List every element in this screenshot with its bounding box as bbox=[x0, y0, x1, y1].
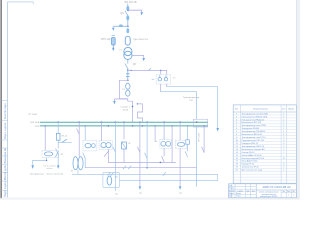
wire from TSN down-left bbox=[33, 158, 47, 166]
right mini grid column 3 bbox=[290, 190, 292, 198]
svg-text:QS: QS bbox=[120, 12, 124, 15]
F4 lower wire bbox=[84, 158, 86, 168]
surge arrester OPN-110 body bbox=[111, 37, 115, 45]
left margin stamp divider 9 bbox=[1, 189, 8, 191]
table row 6 line bbox=[233, 129, 296, 131]
PT winding oval b bbox=[78, 157, 83, 170]
tap wire right with blade bbox=[58, 141, 71, 143]
frame top border (partial, faded scan) bbox=[8, 2, 34, 4]
svg-text:1: 1 bbox=[283, 131, 284, 133]
equipment table outer frame bbox=[233, 105, 296, 184]
svg-text:Трансформатор тока ТФЗМ: Трансформатор тока ТФЗМ bbox=[242, 124, 267, 127]
svg-text:Пров.: Пров. bbox=[229, 196, 233, 198]
PT TV1 symbol bbox=[158, 78, 161, 81]
F9 arrow bbox=[139, 186, 142, 189]
svg-text:КРУ-10кВ: КРУ-10кВ bbox=[199, 132, 201, 141]
svg-text:13: 13 bbox=[236, 149, 238, 151]
cable loop wire lower bbox=[119, 180, 217, 182]
svg-text:1: 1 bbox=[283, 170, 284, 172]
title block left row line 2 bbox=[229, 188, 257, 190]
feeder F4 wire bbox=[84, 126, 86, 140]
feeder F2 lower wire bbox=[57, 154, 59, 165]
feeder F3 blade bbox=[77, 129, 80, 134]
table row 16 line bbox=[233, 158, 296, 160]
wire below PT box b bbox=[166, 84, 168, 87]
svg-text:Петров: Петров bbox=[236, 196, 241, 198]
table row 10 line bbox=[233, 141, 296, 143]
title block main divider bbox=[255, 184, 257, 198]
own-needs tap wire with arrow bbox=[114, 99, 127, 101]
svg-text:19: 19 bbox=[236, 167, 238, 169]
svg-text:Инв.№ подл.: Инв.№ подл. bbox=[3, 102, 7, 119]
disconnector QS1 blade bbox=[125, 11, 128, 16]
right mini grid column 1 bbox=[280, 190, 282, 198]
svg-text:ТДН-16000/110: ТДН-16000/110 bbox=[133, 39, 149, 41]
right mini grid header line bbox=[281, 191, 296, 193]
svg-text:Выключатель нагрузки ВН: Выключатель нагрузки ВН bbox=[242, 149, 266, 151]
feeder F1 arrow bbox=[31, 165, 34, 169]
TSN cell dashed box bbox=[42, 150, 59, 157]
svg-text:прс: прс bbox=[139, 193, 142, 195]
arrester FV1 arrow bbox=[140, 12, 143, 15]
wire: tertiary branch bbox=[132, 55, 144, 58]
table row 12 line bbox=[233, 147, 296, 149]
svg-text:Наименование: Наименование bbox=[253, 108, 269, 110]
F4 breaker oval bbox=[85, 143, 91, 147]
svg-text:QF: QF bbox=[133, 63, 137, 66]
svg-text:Шина АД31Т 50х5: Шина АД31Т 50х5 bbox=[242, 160, 258, 163]
svg-text:Разъединитель РНДЗ-110: Разъединитель РНДЗ-110 bbox=[242, 119, 265, 121]
svg-text:ПК-10: ПК-10 bbox=[62, 136, 68, 138]
reactor square with cross bbox=[122, 142, 127, 149]
node on link bbox=[131, 70, 132, 71]
node: branch point bbox=[127, 10, 129, 12]
svg-text:12: 12 bbox=[283, 158, 285, 160]
svg-text:Трансформатор ЗНОЛ-10: Трансформатор ЗНОЛ-10 bbox=[242, 145, 265, 148]
busbar W1 (1 section) bbox=[40, 121, 207, 123]
table column line 1 bbox=[239, 105, 241, 184]
svg-text:Трансформатор: Трансформатор bbox=[183, 96, 200, 99]
svg-text:6: 6 bbox=[283, 134, 284, 136]
svg-text:3: 3 bbox=[236, 119, 237, 121]
svg-text:1: 1 bbox=[283, 119, 284, 121]
svg-text:Выключатель ВВ-10 кВ: Выключатель ВВ-10 кВ bbox=[242, 134, 263, 136]
svg-text:Щит собственных нужд: Щит собственных нужд bbox=[242, 170, 263, 172]
frame bottom faint line bbox=[0, 197, 300, 199]
feeder F8 wire bbox=[123, 122, 125, 139]
svg-text:14: 14 bbox=[236, 152, 238, 154]
svg-text:Трансформатор силовой ТДН: Трансформатор силовой ТДН bbox=[242, 112, 269, 115]
svg-text:Разраб.: Разраб. bbox=[229, 193, 235, 195]
svg-text:СН: СН bbox=[189, 100, 193, 102]
wire: outer link to standby feeder bbox=[167, 87, 218, 128]
blade on loop wire bbox=[163, 172, 166, 175]
svg-text:3: 3 bbox=[283, 140, 284, 142]
feeder F11 wire bbox=[154, 126, 156, 140]
F10 blade bbox=[145, 153, 147, 158]
svg-text:др: др bbox=[128, 142, 130, 144]
table row 21 line bbox=[233, 173, 296, 175]
cell vertical oval bbox=[107, 176, 112, 185]
CT TA1 on main line bbox=[126, 28, 129, 33]
tick left of PT box bbox=[152, 78, 154, 80]
title block left column line b bbox=[234, 184, 236, 198]
table row 8 line bbox=[233, 135, 296, 137]
svg-text:1: 1 bbox=[293, 195, 294, 197]
TSN winding oval bbox=[44, 152, 52, 156]
svg-text:Разрядник РВО-10: Разрядник РВО-10 bbox=[242, 143, 258, 145]
table row 20 line bbox=[233, 170, 296, 172]
table row 22 line bbox=[233, 176, 296, 178]
table row 13 line bbox=[233, 149, 296, 151]
feeder F7 wire (straight bay) bbox=[114, 122, 116, 190]
svg-text:Примеч.: Примеч. bbox=[288, 109, 295, 111]
svg-text:1СШ 10кВ: 1СШ 10кВ bbox=[30, 122, 40, 124]
bus end enclosure bbox=[193, 119, 207, 127]
wire: inner link to bus section bbox=[161, 92, 197, 120]
table row 7 line bbox=[233, 132, 296, 134]
left margin stamp divider 4 bbox=[1, 147, 8, 149]
F14 lower wire bbox=[179, 149, 181, 187]
right mini grid column 2 bbox=[285, 190, 287, 198]
svg-text:12: 12 bbox=[236, 146, 238, 148]
table row 14 line bbox=[233, 152, 296, 154]
breaker symbol on main line bbox=[126, 15, 129, 20]
wire to 10kV junction bbox=[127, 69, 129, 71]
svg-text:прс: прс bbox=[179, 193, 182, 195]
svg-text:РУ 10кВ: РУ 10кВ bbox=[28, 114, 37, 116]
line trap / coupling symbol bbox=[126, 6, 129, 11]
svg-text:15: 15 bbox=[236, 155, 238, 157]
svg-text:Подп. и дата: Подп. и дата bbox=[3, 181, 7, 197]
F13 cell dashed box with oval bbox=[176, 140, 187, 148]
PT winding oval a bbox=[73, 157, 78, 170]
svg-text:4: 4 bbox=[236, 122, 237, 124]
TSN switch blade bbox=[55, 152, 58, 158]
PT assembly dashed box bbox=[156, 74, 170, 84]
F17 blade bbox=[202, 147, 204, 152]
svg-text:Ограничитель ОПН-110 УХЛ1: Ограничитель ОПН-110 УХЛ1 bbox=[242, 116, 268, 118]
svg-text:Линия к абонентам: Линия к абонентам bbox=[46, 173, 64, 175]
node on stair link bbox=[137, 103, 138, 104]
title block left column line d bbox=[250, 184, 252, 198]
svg-text:Заградитель ВЗ-600: Заградитель ВЗ-600 bbox=[242, 128, 260, 130]
wire below transformer bbox=[127, 60, 129, 63]
wire: main line 10kV side down bbox=[127, 70, 129, 80]
svg-text:Трансформатор тока ТЛ-10: Трансформатор тока ТЛ-10 bbox=[242, 136, 266, 139]
F4 blade below bbox=[83, 153, 85, 158]
node on jog bbox=[132, 106, 134, 108]
busbar W2 (2 section) bbox=[40, 125, 207, 127]
table row 1 line bbox=[233, 114, 296, 116]
blade on collector 2 bbox=[128, 166, 131, 169]
F4 cell dashed box bbox=[83, 140, 97, 151]
cable loop right vertical bbox=[217, 174, 219, 180]
F4 small circle bbox=[92, 144, 96, 148]
wire: PT column a bbox=[160, 70, 162, 74]
table row 19 line bbox=[233, 167, 296, 169]
svg-text:3: 3 bbox=[283, 143, 284, 145]
feeder F16 wire bbox=[196, 127, 198, 186]
wire: main line to junction bbox=[127, 21, 129, 27]
svg-text:Взам.инв.№: Взам.инв.№ bbox=[3, 148, 7, 163]
left margin stamp divider 5 bbox=[1, 155, 8, 157]
left margin stamp divider 8 bbox=[1, 180, 8, 182]
transformer T1 upper winding bbox=[124, 47, 132, 55]
right page edge band bbox=[297, 0, 300, 200]
F5 blade below bbox=[104, 151, 109, 157]
svg-text:Лист: Лист bbox=[232, 190, 235, 192]
node on collector b bbox=[160, 162, 162, 164]
svg-text:ОПН-110: ОПН-110 bbox=[101, 39, 111, 41]
svg-text:6: 6 bbox=[236, 128, 237, 130]
cell slash marks bbox=[108, 173, 110, 176]
table row 17 line bbox=[233, 161, 296, 163]
feeder F5 wire bbox=[100, 122, 102, 140]
wire below PT ovals bbox=[77, 170, 79, 175]
collector wire lavender lower bbox=[85, 167, 196, 169]
svg-text:Лист: Лист bbox=[287, 191, 291, 193]
frame left border bbox=[7, 2, 9, 198]
node at bypass tap bbox=[127, 80, 129, 82]
svg-text:10: 10 bbox=[236, 140, 238, 142]
tertiary arrow bbox=[142, 58, 145, 61]
CT on OPN branch bbox=[119, 24, 123, 27]
F5 truck circle b bbox=[106, 143, 111, 148]
svg-text:Секция 1: Секция 1 bbox=[121, 107, 131, 109]
F14 arrow bbox=[179, 186, 182, 189]
svg-text:Поз.: Поз. bbox=[235, 109, 239, 111]
svg-text:Трансформатор ТМ-400/10: Трансформатор ТМ-400/10 bbox=[242, 130, 266, 133]
feeder F6 wire bbox=[107, 150, 109, 163]
F12 blade bbox=[162, 156, 164, 162]
feeder F3 wire (PT bay) bbox=[78, 122, 80, 156]
svg-text:1: 1 bbox=[288, 195, 289, 197]
F11 cell dashed box with two circles bbox=[160, 140, 172, 149]
svg-text:Изолятор опорный ИО-10: Изолятор опорный ИО-10 bbox=[242, 157, 265, 160]
svg-text:Трансформатор: Трансформатор bbox=[30, 172, 44, 175]
svg-text:10 кВ: 10 кВ bbox=[122, 110, 128, 112]
feeder F2 wire bbox=[57, 122, 59, 133]
table row 9 line bbox=[233, 138, 296, 140]
feeder F14 wire bbox=[179, 122, 181, 140]
F13 breaker oval bbox=[178, 142, 185, 146]
svg-text:Кол: Кол bbox=[282, 109, 285, 111]
svg-text:1: 1 bbox=[283, 122, 284, 124]
feeder F12 wire bbox=[163, 122, 165, 139]
left margin stamp divider 6 bbox=[1, 163, 8, 165]
svg-text:Подп. и дата: Подп. и дата bbox=[3, 122, 7, 139]
F11 truck circle b bbox=[166, 141, 171, 146]
svg-text:Реактор РБ-10: Реактор РБ-10 bbox=[242, 152, 255, 154]
svg-text:1: 1 bbox=[283, 128, 284, 130]
svg-text:Предохранитель ПКТ-101: Предохранитель ПКТ-101 bbox=[242, 140, 265, 142]
wire below fuse bbox=[57, 140, 59, 148]
F15 blade bbox=[185, 152, 187, 157]
svg-text:18: 18 bbox=[236, 164, 238, 166]
table row 11 line bbox=[233, 144, 296, 146]
wire: branch left to OPN bbox=[113, 25, 128, 27]
bus junction nodes bottom bbox=[44, 125, 205, 127]
table row 23 line bbox=[233, 179, 296, 181]
svg-text:9: 9 bbox=[283, 137, 284, 139]
frame right border bbox=[295, 0, 297, 198]
svg-text:3: 3 bbox=[283, 125, 284, 127]
svg-text:5: 5 bbox=[236, 125, 237, 127]
CT oval pair lower bbox=[126, 90, 130, 96]
svg-text:8: 8 bbox=[236, 134, 237, 136]
table row 3 line bbox=[233, 120, 296, 122]
left margin stamp divider 2 bbox=[1, 119, 8, 121]
left margin stamp divider 1 bbox=[1, 100, 8, 102]
F15 small symbol bbox=[186, 140, 190, 144]
wire: branch to surge arrester FV1 bbox=[128, 10, 142, 12]
feeder F9 wire bbox=[139, 122, 141, 186]
title block outer frame bbox=[229, 184, 297, 198]
table row 5 line bbox=[233, 126, 296, 128]
svg-text:подстанции 110/10: подстанции 110/10 bbox=[260, 195, 278, 198]
F5 truck circle a bbox=[101, 143, 106, 148]
wire: incoming 110kV drop bbox=[127, 4, 129, 6]
svg-text:ТМ: ТМ bbox=[122, 89, 125, 91]
isolator tick on link bbox=[149, 68, 151, 70]
left margin stamp divider 3 bbox=[1, 139, 8, 141]
bypass loop wire bbox=[119, 80, 127, 98]
stair link wire to bus bbox=[137, 104, 142, 122]
breaker QF blade bbox=[125, 64, 128, 69]
cell plus tick bbox=[115, 176, 118, 178]
table row 24 line bbox=[233, 182, 296, 184]
svg-text:1: 1 bbox=[236, 113, 237, 115]
F7 blade bbox=[113, 147, 116, 152]
feeder F1 wire (TSN cell) bbox=[44, 126, 46, 150]
feeder F17 wire bbox=[203, 126, 205, 152]
CT dash mark 1 bbox=[126, 73, 129, 74]
svg-text:2: 2 bbox=[283, 167, 284, 169]
F8 lower wire bbox=[123, 149, 125, 162]
node: 10kV side junction bbox=[127, 70, 129, 72]
wire: main jog to busbar bbox=[128, 99, 133, 123]
title block left column line a bbox=[231, 184, 233, 198]
title block left row line 3 bbox=[229, 191, 257, 193]
F5 cell dashed box bbox=[99, 141, 113, 150]
svg-text:Привод ПР-10: Привод ПР-10 bbox=[242, 164, 254, 166]
arrow down on OPN column bbox=[112, 28, 115, 31]
title block left row line 1 bbox=[229, 185, 257, 187]
fuse FU1 bbox=[56, 133, 60, 140]
transformer T1 lower winding bbox=[124, 51, 132, 59]
blade on collector 1 bbox=[123, 166, 126, 169]
svg-text:Выключатель ВГТ-110: Выключатель ВГТ-110 bbox=[242, 122, 261, 124]
table row 4 line bbox=[233, 123, 296, 125]
arrester lead and ground arrow bbox=[112, 45, 114, 48]
svg-text:Инв.№ дубл.: Инв.№ дубл. bbox=[3, 164, 7, 180]
feeder F15 wire bbox=[187, 126, 189, 151]
svg-text:Лит: Лит bbox=[282, 191, 285, 193]
svg-text:16: 16 bbox=[236, 158, 238, 160]
svg-text:20: 20 bbox=[236, 170, 238, 172]
svg-text:ВЛ 110 кВ: ВЛ 110 кВ bbox=[125, 0, 137, 4]
title block left row line 4 bbox=[229, 194, 257, 196]
left margin stamp divider 7 bbox=[1, 171, 8, 173]
table row 18 line bbox=[233, 164, 296, 166]
node: junction to OPN branch bbox=[127, 25, 129, 27]
node bbox=[46, 160, 47, 161]
bushing / winding oval bbox=[125, 36, 130, 45]
feeder F2 blade bbox=[56, 149, 59, 155]
standby feeder arrow bbox=[216, 128, 219, 132]
svg-text:АБВГ.ХХ.110/10.КВ.Э3: АБВГ.ХХ.110/10.КВ.Э3 bbox=[261, 185, 290, 189]
table column line 2 bbox=[280, 105, 282, 184]
svg-text:Заземлитель ЗР-10: Заземлитель ЗР-10 bbox=[242, 167, 259, 169]
svg-text:2: 2 bbox=[236, 116, 237, 118]
svg-text:№ докум.: № докум. bbox=[237, 190, 243, 192]
svg-text:7: 7 bbox=[236, 131, 237, 133]
table row 2 line bbox=[233, 117, 296, 119]
svg-text:Н.контр.: Н.контр. bbox=[229, 188, 235, 190]
svg-text:2: 2 bbox=[283, 116, 284, 118]
F12 lower wire bbox=[163, 148, 165, 156]
collector wire lavender upper bbox=[108, 161, 175, 163]
svg-text:6: 6 bbox=[283, 164, 284, 166]
svg-text:ТС: ТС bbox=[173, 78, 176, 80]
feeder F13 wire bbox=[171, 126, 173, 162]
node on collector bbox=[146, 167, 148, 169]
table header bottom line bbox=[233, 111, 296, 113]
left sheet edge black line bbox=[0, 0, 2, 198]
CT oval pair upper bbox=[126, 83, 130, 89]
svg-text:Иванов: Иванов bbox=[236, 193, 241, 195]
bottom page edge shade bbox=[0, 198, 300, 200]
tick above OPN body bbox=[112, 34, 115, 36]
table column line 3 bbox=[286, 105, 288, 184]
wire: lavender link to PT group bbox=[128, 69, 167, 71]
feeder F2 arrow bbox=[57, 165, 60, 169]
F9 blade bbox=[138, 147, 140, 152]
wire below PT box a bbox=[160, 84, 162, 92]
svg-text:Кабель ААБл-10 3х120: Кабель ААБл-10 3х120 bbox=[242, 154, 262, 157]
PT TV2 symbol bbox=[164, 78, 167, 81]
svg-text:2: 2 bbox=[283, 149, 284, 151]
title block left column line c bbox=[244, 184, 246, 198]
F11 truck circle a bbox=[161, 141, 166, 146]
svg-text:11: 11 bbox=[236, 143, 238, 145]
svg-text:2СШ: 2СШ bbox=[35, 126, 40, 128]
bus junction nodes top bbox=[57, 121, 197, 123]
svg-text:1: 1 bbox=[283, 152, 284, 154]
svg-text:1: 1 bbox=[283, 113, 284, 115]
svg-text:Дата: Дата bbox=[252, 190, 255, 192]
svg-text:прс: прс bbox=[115, 194, 118, 196]
svg-text:9: 9 bbox=[236, 137, 237, 139]
svg-text:кабеля: кабеля bbox=[46, 168, 52, 170]
outgoing cell rounded box bbox=[103, 172, 120, 187]
svg-text:17: 17 bbox=[236, 161, 238, 163]
CT dash mark 2 bbox=[126, 76, 129, 77]
cable loop wire upper bbox=[72, 173, 217, 175]
node at PT columns bbox=[160, 70, 162, 72]
feeder F10 wire bbox=[146, 122, 148, 168]
table row 15 line bbox=[233, 155, 296, 157]
svg-text:2: 2 bbox=[283, 146, 284, 148]
designation cell bottom line bbox=[256, 189, 296, 191]
wire: PT column b bbox=[166, 70, 168, 74]
